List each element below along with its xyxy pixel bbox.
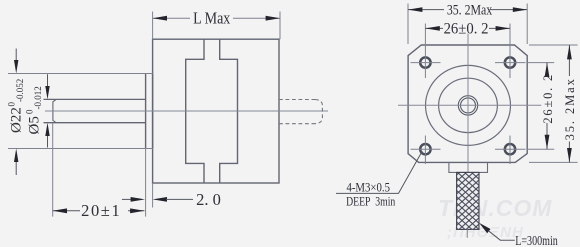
- L Max right arrow: [266, 16, 280, 21]
- 20+-1 left arrow: [53, 208, 67, 213]
- mounting hole top-right: [505, 57, 515, 67]
- dia5 bottom arrow: [45, 123, 49, 148]
- mounting hole bottom-right: [505, 144, 515, 154]
- svg-text:Ø22: Ø22: [9, 107, 25, 133]
- right 26+-0.2 up arrow: [545, 63, 550, 77]
- svg-text:4-M3×0.5: 4-M3×0.5: [346, 180, 390, 195]
- pilot circle (outer): [426, 65, 511, 145]
- 35.2Max top right arrow: [513, 7, 527, 12]
- cable center line below: [466, 229, 468, 237]
- dia5 top arrow: [45, 74, 49, 99]
- 26+-0.2 top right arrow: [496, 26, 510, 31]
- body-edge extension below (for 2.0): [152, 183, 154, 208]
- rear shaft (hidden, dashed): [279, 100, 322, 124]
- right 35.2Max dimension line: [568, 45, 570, 162]
- svg-text:L Max: L Max: [193, 9, 231, 27]
- 26+-0.2 top dimension line: [425, 27, 510, 29]
- front view vertical center line: [467, 34, 469, 173]
- 20+-1 right arrow: [130, 208, 144, 213]
- 2.0 dimension right arrow (outside): [153, 197, 193, 202]
- dia22 bottom arrow: [14, 149, 18, 176]
- svg-text:26±0. 2: 26±0. 2: [444, 21, 489, 37]
- L Max dimension line: [153, 17, 280, 19]
- L Max extension line left: [152, 12, 154, 40]
- L Max left arrow: [153, 16, 167, 21]
- 20+-1 dimension line: [53, 210, 145, 212]
- shaft ring inner: [461, 98, 476, 113]
- right 26+-0.2 extension lines: [527, 63, 554, 150]
- front pilot boss: [146, 74, 153, 149]
- mounting hole top-left: [420, 57, 430, 67]
- mounting hole bottom-left: [420, 144, 430, 154]
- right 26+-0.2 dimension line: [546, 63, 548, 150]
- svg-text:-0.012: -0.012: [33, 86, 43, 109]
- dia5 label: [25, 86, 44, 134]
- right 35.2Max up arrow: [567, 45, 572, 59]
- front view horizontal center line: [398, 104, 541, 106]
- square flange outline with chamfered corners: [408, 45, 527, 162]
- svg-text:L=300min: L=300min: [515, 232, 558, 247]
- L=300min leader arrow: [479, 223, 491, 233]
- axis center line: [45, 110, 328, 112]
- svg-text:2. 0: 2. 0: [196, 190, 221, 209]
- svg-text:DEEP 3min: DEEP 3min: [346, 195, 396, 208]
- motor body outline: [153, 39, 279, 183]
- L Max extension line right: [279, 12, 281, 40]
- braided cable: [457, 172, 479, 229]
- svg-text:35. 2Max: 35. 2Max: [447, 1, 493, 18]
- svg-text:TΙₕN.COM: TΙₕN.COM: [438, 195, 552, 221]
- dia22 extension line top: [8, 73, 154, 75]
- right 35.2Max extension lines: [529, 45, 578, 162]
- shaft hub ring outer: [458, 96, 477, 115]
- dia22 label: [7, 79, 26, 133]
- 20+-1 extension line left: [52, 124, 54, 217]
- right 35.2Max down arrow: [567, 148, 572, 162]
- 2.0 dimension left arrow (outside): [122, 197, 145, 202]
- hole crosshairs / 26 extension lines vertical: [425, 24, 510, 165]
- 35.2Max top dimension line: [408, 9, 527, 11]
- svg-text:-0.052: -0.052: [15, 79, 25, 102]
- boss circle (middle): [439, 78, 498, 132]
- hole crosshairs horizontal: [411, 63, 526, 150]
- 35.2Max top extension lines: [408, 4, 527, 45]
- cable connector block: [449, 163, 488, 173]
- 26+-0.2 top left arrow: [425, 26, 439, 31]
- L=300min leader line: [489, 231, 515, 240]
- svg-text:Ø5: Ø5: [27, 116, 43, 134]
- svg-text:26±0. 2: 26±0. 2: [541, 73, 555, 124]
- 35.2Max top left arrow: [408, 7, 422, 12]
- svg-text:35. 2Max: 35. 2Max: [563, 77, 577, 140]
- dia22 extension line bottom: [8, 148, 154, 150]
- shaft outline: [44, 99, 146, 122]
- dia22 top arrow: [14, 49, 18, 74]
- right 26+-0.2 down arrow: [545, 135, 550, 149]
- stator stack outline with mounting tabs: [186, 39, 238, 183]
- 4-M3x0.5 leader underline: [336, 151, 422, 193]
- svg-text:20±1: 20±1: [81, 201, 121, 220]
- 20+-1 / 2.0 shared extension line (boss face): [145, 149, 147, 217]
